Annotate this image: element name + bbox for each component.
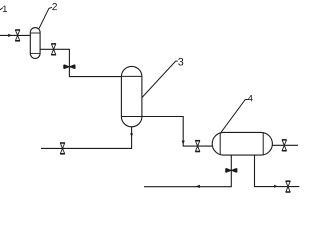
- label 1 leader stub: [0, 8, 3, 10]
- flow arrow left on bottom left line: [195, 185, 200, 188]
- wire vessel 4 bottom outlet going left: [144, 155, 231, 187]
- vessel 2 (vertical knockout drum): [30, 28, 40, 59]
- vessel 4 (horizontal drum): [212, 132, 272, 155]
- flow arrow down above corner: [182, 141, 185, 145]
- valve V5 on bottoms drain: [60, 143, 65, 154]
- valve V6 on vessel 4 right outlet: [282, 140, 287, 151]
- flow arrow right on bottom right line: [274, 185, 278, 188]
- wire vessel 4 second bottom outlet going right: [255, 155, 300, 187]
- flow arrow down below vessel 3: [130, 133, 133, 137]
- label 2 leader: [39, 7, 52, 28]
- label 4 leader: [221, 99, 248, 132]
- wire vessel 4 right outlet: [272, 144, 298, 146]
- valve V3 on vertical drop to vessel 3: [64, 65, 75, 69]
- wire vessel 3 bottoms drain: [41, 127, 132, 149]
- valve V2 on vessel 2 outlet: [51, 44, 56, 55]
- wire feed line stream 1: [0, 34, 31, 36]
- label 3 leader: [142, 61, 178, 97]
- label 3: [178, 58, 183, 66]
- label 1: [3, 6, 7, 12]
- valve V4 before vessel 4: [195, 141, 200, 152]
- valve V8 on bottom right line: [286, 181, 291, 192]
- vessel 3 (distillation column): [121, 66, 141, 126]
- label 2: [52, 3, 57, 10]
- valve V1 on feed line: [15, 30, 20, 41]
- wire vessel 3 overhead outlet to vessel 4: [142, 117, 213, 147]
- label 4: [248, 95, 253, 101]
- valve V7 bowtie on bottom outlet: [226, 168, 237, 172]
- flow arrow on feed line: [8, 34, 12, 37]
- wire vessel 2 outlet: [40, 49, 121, 76]
